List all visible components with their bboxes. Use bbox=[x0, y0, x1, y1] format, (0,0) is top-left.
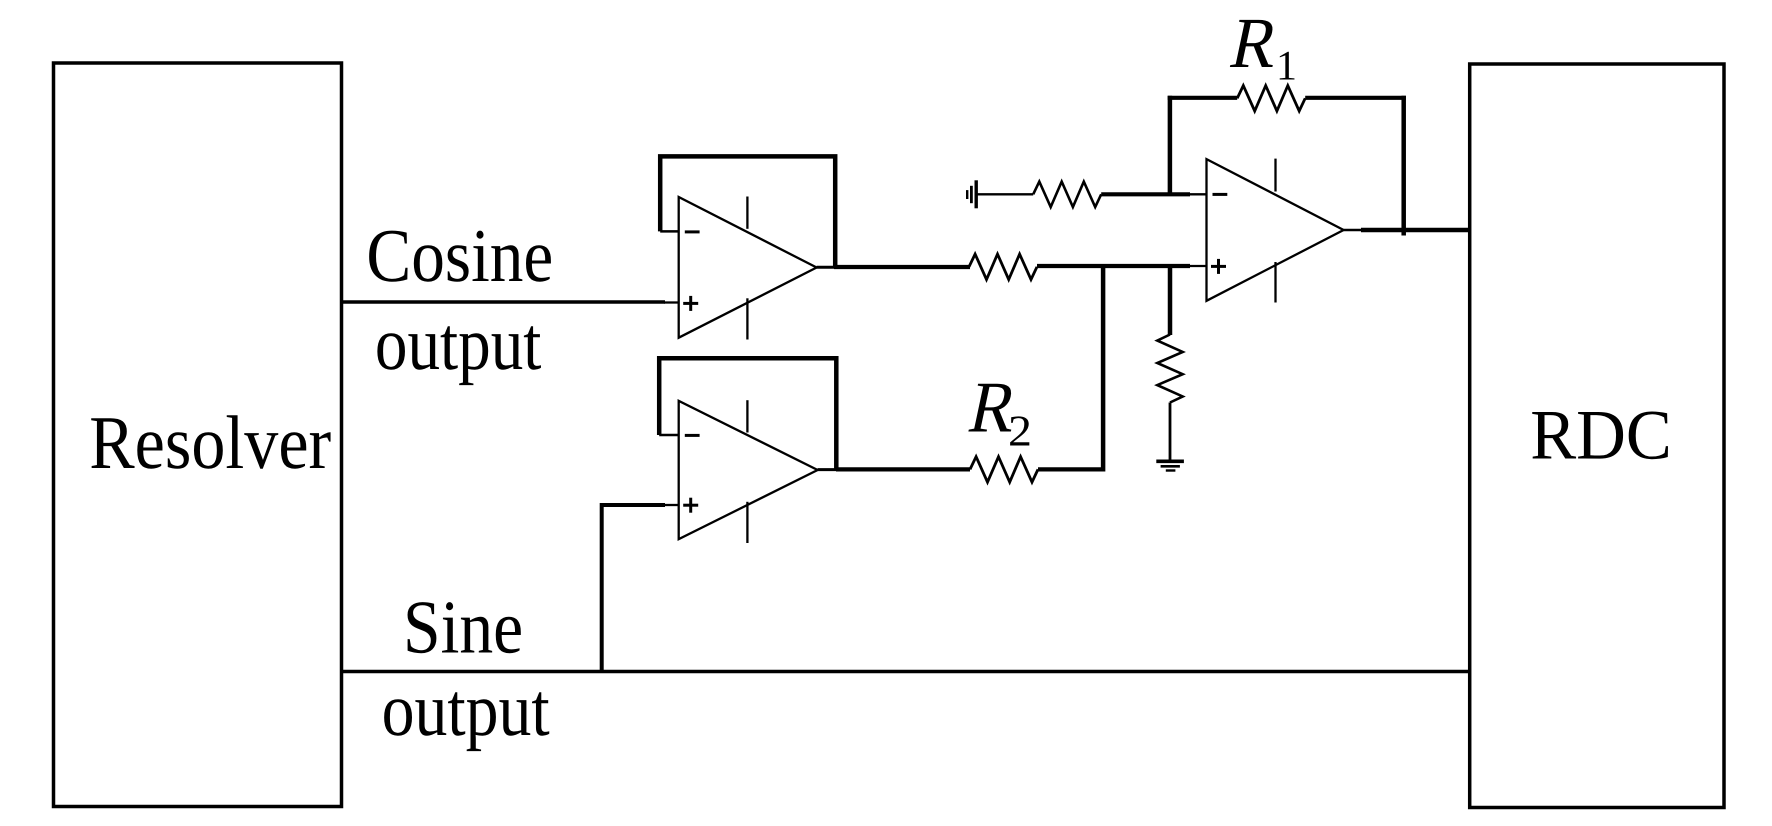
wire: U2 output bbox=[818, 468, 838, 471]
resistor (U3 - input to ground) bbox=[1033, 182, 1101, 207]
op-amp U3 (output difference amp) bbox=[1207, 159, 1344, 301]
node: junction to R2 bbox=[1101, 264, 1106, 472]
ground (below vertical resistor) bbox=[1156, 459, 1184, 463]
svg-text:output: output bbox=[382, 668, 550, 752]
wire: resistor to U3 + input bbox=[1037, 264, 1190, 268]
wire: R1 feedback left riser bbox=[1168, 96, 1173, 195]
svg-text:RDC: RDC bbox=[1530, 397, 1672, 475]
wire: sine output from Resolver to RDC bbox=[342, 670, 1470, 674]
RDC block bbox=[1470, 64, 1724, 808]
wire: R1 top left bbox=[1168, 96, 1238, 100]
wire: U3 output to RDC bbox=[1344, 229, 1363, 231]
node: junction to ground resistor bbox=[1168, 266, 1173, 335]
wire: vertical resistor to ground bbox=[1169, 403, 1172, 462]
svg-text:2: 2 bbox=[1008, 407, 1032, 456]
svg-text:1: 1 bbox=[1276, 43, 1297, 89]
wire: U1 feedback loop bbox=[660, 156, 835, 267]
op-amp U2 (sine buffer) bbox=[679, 401, 818, 539]
svg-text:Sine: Sine bbox=[403, 586, 523, 670]
Resolver block bbox=[54, 63, 342, 807]
wire: cosine output from Resolver to U1 + input bbox=[342, 300, 666, 304]
wire: R2 to junction bbox=[1038, 467, 1105, 471]
wire: R1 right riser to output bbox=[1401, 96, 1406, 236]
ground (left of U3 - input resistor) bbox=[975, 180, 978, 208]
svg-text:Cosine: Cosine bbox=[366, 214, 553, 298]
resistor R2 bbox=[970, 457, 1038, 482]
wire: U2 feedback loop bbox=[659, 358, 836, 470]
wire: U1 output bbox=[817, 266, 837, 269]
resistor R1 bbox=[1237, 86, 1305, 111]
wire: resistor to U3 - input bbox=[1101, 192, 1190, 196]
wire: riser from sine line to U2 + input bbox=[602, 505, 665, 672]
op-amp U1 (cosine buffer) bbox=[679, 197, 817, 338]
svg-text:Resolver: Resolver bbox=[89, 401, 331, 485]
svg-text:output: output bbox=[375, 302, 542, 386]
wire: ground to resistor bbox=[976, 193, 1033, 195]
resistor (vertical, U3 + input to ground) bbox=[1157, 335, 1182, 403]
wire: R1 top right bbox=[1305, 96, 1406, 100]
resistor (U1 output series) bbox=[969, 254, 1037, 279]
